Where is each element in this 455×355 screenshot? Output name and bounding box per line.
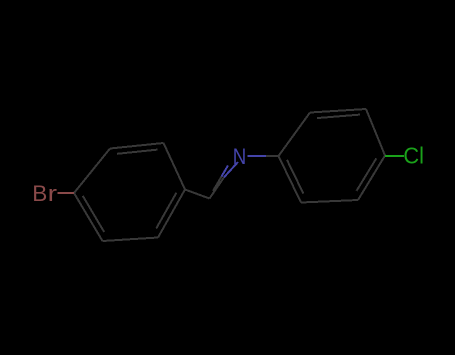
right benzene ring edge D'-E' (358, 156, 385, 201)
bond ring D' to Cl, chlorine colored (385, 155, 404, 157)
bond ring D to CH carbon (185, 190, 210, 199)
right benzene ring edge B'-C' (top) (310, 109, 366, 113)
svg-text:r: r (48, 181, 58, 206)
left ring inner double bond line at edge F-A (83, 196, 104, 232)
svg-text:Cl: Cl (403, 143, 424, 169)
right ring inner double bond line at edge D'-E' (357, 158, 377, 191)
left benzene ring edge F-A (74, 193, 103, 241)
C=N double bond main line, carbon half (210, 177, 225, 198)
svg-text:N: N (233, 144, 247, 169)
left benzene ring edge B-C (top) (110, 143, 164, 149)
left benzene ring edge A-B (74, 149, 110, 194)
C=N double bond second line, nitrogen half (222, 166, 229, 177)
right ring inner double bond line at top edge B'-C' (317, 115, 360, 119)
right benzene ring edge C'-D' (366, 109, 385, 156)
C=N double bond main line, nitrogen half (224, 162, 238, 177)
right benzene ring edge E'-F' (bottom) (301, 200, 358, 203)
bond N to right ring, nitrogen colored half (248, 155, 267, 157)
left benzene ring edge E-F (bottom) (103, 238, 159, 242)
right ring inner double bond line at edge F'-A' (287, 160, 304, 194)
bond N to right ring, carbon colored half (266, 155, 279, 157)
C=N double bond second line, carbon half (213, 177, 222, 192)
left ring inner double bond line at edge D-E (156, 193, 176, 229)
left benzene ring edge C-D (164, 143, 186, 190)
svg-text:B: B (32, 181, 47, 206)
right benzene ring edge F'-A' (279, 156, 302, 203)
left benzene ring edge D-E (158, 190, 185, 238)
bond Br to ring A, bromine colored (58, 192, 75, 194)
left ring inner double bond line at top edge B-C (117, 150, 158, 154)
right benzene ring edge A'-B' (279, 113, 311, 157)
